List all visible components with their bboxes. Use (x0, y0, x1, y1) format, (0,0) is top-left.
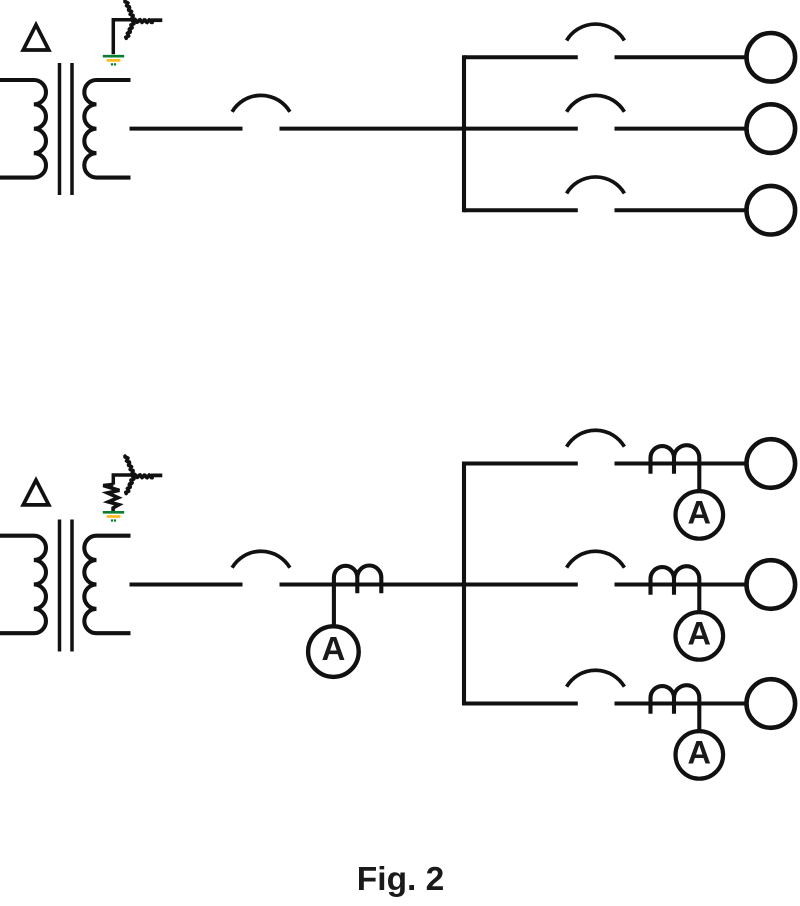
wye symbol T2 secondary (125, 456, 162, 494)
load circle M5 (747, 560, 796, 609)
load circle M1 (747, 33, 796, 82)
load circle M6 (747, 679, 796, 728)
wire branch 3 top (bus to breaker) (464, 208, 578, 212)
wire branch 3 bottom (bus to breaker) (464, 702, 578, 706)
svg-text:A: A (688, 495, 711, 531)
current transformer CT2 branch 1 (651, 445, 700, 491)
ammeter A4 (676, 731, 724, 779)
transformer T1 core (60, 63, 73, 195)
transformer T1 secondary winding (84, 80, 130, 178)
bus bottom diagram (462, 462, 466, 706)
current transformer CT4 branch 3 (651, 685, 700, 731)
load circle M2 (747, 104, 796, 153)
svg-text:A: A (688, 735, 711, 771)
wire branch 1 top (breaker to load) (615, 55, 748, 59)
svg-text:A: A (688, 616, 711, 652)
wire main feeder top (transformer to breaker) (130, 127, 243, 131)
svg-text:A: A (321, 630, 345, 667)
load circle M4 (747, 439, 796, 488)
wire branch 2 top (bus to breaker) (464, 127, 578, 131)
load circle M3 (747, 186, 796, 235)
wire branch 2 top (breaker to load) (615, 127, 748, 131)
wire main feeder bottom (breaker to bus) (280, 583, 465, 587)
breaker CB4 branch 3 top (567, 177, 625, 193)
ammeter A2 (676, 491, 724, 539)
ammeter A1 (308, 626, 359, 677)
breaker CB2 branch 1 top (567, 24, 625, 40)
wye symbol T1 secondary (125, 1, 162, 39)
wire branch 1 bottom (bus to breaker) (464, 462, 578, 466)
transformer T2 delta symbol (primary) (23, 480, 49, 505)
wire branch 3 top (breaker to load) (615, 208, 748, 212)
resistor R1 neutral grounding (103, 484, 119, 511)
breaker CB3 branch 2 top (567, 95, 625, 111)
wire main feeder bottom (transformer to breaker) (130, 583, 243, 587)
transformer T2 core (60, 520, 73, 652)
current transformer CT3 branch 2 (651, 566, 700, 612)
wire main feeder top (breaker to bus) (280, 127, 465, 131)
bus top diagram (462, 55, 466, 212)
ground T1 neutral (PE green/yellow) (103, 56, 124, 64)
transformer T1 delta symbol (primary) (23, 25, 49, 50)
wire branch 3 bottom (breaker to load) (615, 702, 748, 706)
breaker CB6 branch 1 bottom (567, 430, 625, 446)
current transformer CT1 on main feeder (334, 566, 381, 627)
wire T1 neutral to ground (113, 20, 133, 55)
breaker CB8 branch 3 bottom (567, 670, 625, 686)
transformer T2 primary winding (0, 536, 46, 634)
wire branch 1 bottom (breaker to load) (615, 462, 748, 466)
wire branch 2 bottom (breaker to load) (615, 583, 748, 587)
transformer T1 primary winding (0, 80, 46, 178)
svg-text:Fig. 2: Fig. 2 (357, 861, 444, 898)
breaker CB7 branch 2 bottom (567, 551, 625, 567)
breaker CB5 main bottom (232, 551, 290, 567)
transformer T2 secondary winding (84, 536, 130, 634)
wire branch 1 top (bus to breaker) (464, 55, 578, 59)
breaker CB1 main top (232, 95, 290, 111)
wire T2 neutral (113, 475, 133, 485)
ammeter A3 (676, 612, 724, 660)
ground T2 neutral (PE green/yellow) (103, 512, 124, 520)
wire branch 2 bottom (bus to breaker) (464, 583, 578, 587)
